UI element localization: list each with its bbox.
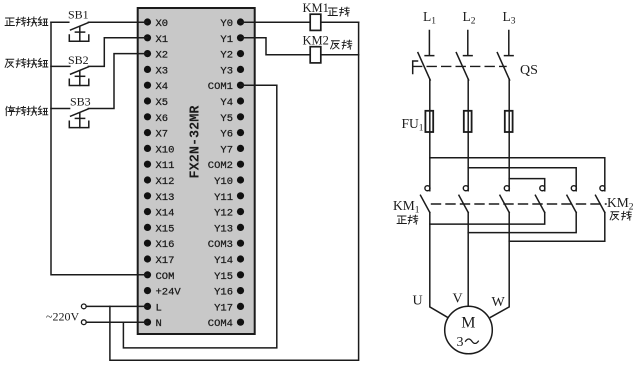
wire crossover L1 to KM2 pole3 bbox=[430, 158, 605, 191]
svg-text:X2: X2 bbox=[156, 50, 169, 62]
wire phase1 fuse to KM1 pole1 bbox=[429, 132, 431, 191]
svg-text:+24V: +24V bbox=[156, 287, 182, 299]
wire phase2 QS to fuse bbox=[467, 80, 469, 111]
wire SB2 to X1 bbox=[88, 38, 147, 67]
label 反转 (KM2 coil) bbox=[331, 40, 352, 49]
switch QS blade 2 bbox=[456, 53, 468, 80]
switch QS blade 1 bbox=[418, 53, 430, 80]
label 正转按钮 bbox=[5, 17, 48, 26]
svg-text:Y11: Y11 bbox=[214, 192, 233, 204]
terminal circle L bbox=[81, 304, 86, 309]
svg-text:QS: QS bbox=[520, 63, 538, 78]
wire crossover L2 to KM2 pole2 bbox=[468, 168, 576, 191]
wire KM1 pole1 to motor U bbox=[430, 213, 448, 318]
label W bbox=[492, 295, 506, 310]
svg-text:Y7: Y7 bbox=[220, 144, 233, 156]
label ~220V bbox=[46, 310, 79, 324]
label 停转按钮 bbox=[6, 106, 48, 116]
switch QS blade 3 bbox=[497, 53, 509, 80]
svg-text:KM2: KM2 bbox=[607, 195, 634, 213]
svg-text:Y0: Y0 bbox=[220, 18, 233, 30]
svg-text:X15: X15 bbox=[156, 223, 175, 235]
svg-text:L1: L1 bbox=[423, 9, 436, 27]
svg-text:Y4: Y4 bbox=[220, 97, 233, 109]
label SB3 bbox=[70, 95, 91, 109]
wire L2 stub bbox=[464, 31, 473, 56]
contactor linkage (dashed) bbox=[432, 203, 607, 205]
svg-text:V: V bbox=[453, 292, 463, 307]
svg-text:M: M bbox=[461, 315, 475, 332]
svg-text:KM2: KM2 bbox=[303, 34, 329, 48]
label V bbox=[453, 292, 463, 307]
svg-text:Y14: Y14 bbox=[214, 255, 233, 267]
svg-text:W: W bbox=[492, 295, 506, 310]
coil KM2 bbox=[310, 47, 321, 63]
wire common bus of buttons to COM bbox=[51, 22, 148, 275]
wire link U to KM2 pole1 bbox=[430, 213, 545, 225]
pushbutton SB3 (NO, stop) bbox=[51, 109, 89, 128]
svg-text:X13: X13 bbox=[156, 192, 175, 204]
contactor KM1 pole 1 bbox=[421, 186, 431, 213]
label 反转按钮 bbox=[5, 58, 48, 67]
wire L down to KM coil return bus bbox=[110, 22, 359, 360]
label KM2 bbox=[303, 34, 329, 48]
svg-text:Y3: Y3 bbox=[220, 65, 233, 77]
wire Y0 to KM1 coil bbox=[241, 21, 311, 23]
svg-text:COM: COM bbox=[156, 271, 175, 283]
PLC label FX2N-32MR bbox=[189, 105, 204, 179]
output terminal dots Y0-Y17,COM1-4 bbox=[237, 18, 244, 325]
svg-text:N: N bbox=[156, 318, 162, 330]
switch QS linkage (dashed) bbox=[413, 65, 506, 67]
wire Y1 to KM2 coil bbox=[241, 38, 311, 55]
wire SB3 to X2 bbox=[88, 54, 147, 109]
PLC module FX2N-32MR body bbox=[138, 8, 255, 334]
svg-text:L3: L3 bbox=[503, 9, 516, 27]
svg-text:U: U bbox=[413, 294, 423, 309]
svg-text:L: L bbox=[156, 302, 162, 314]
label L2 bbox=[463, 9, 476, 27]
contactor KM2 pole 2 bbox=[567, 186, 576, 213]
svg-text:Y10: Y10 bbox=[214, 176, 233, 188]
contactor KM1 pole 3 bbox=[500, 186, 510, 213]
contactor KM2 pole 1 bbox=[535, 186, 544, 213]
svg-text:Y1: Y1 bbox=[220, 34, 233, 46]
label 正转 (KM1 coil) bbox=[328, 7, 349, 16]
svg-text:X4: X4 bbox=[156, 81, 169, 93]
wire phase3 QS to fuse bbox=[508, 80, 510, 111]
label L1 bbox=[423, 9, 436, 27]
svg-text:~220V: ~220V bbox=[46, 310, 79, 324]
svg-text:Y13: Y13 bbox=[214, 223, 233, 235]
svg-text:KM1: KM1 bbox=[393, 198, 420, 216]
label KM1 (contacts) bbox=[393, 198, 420, 216]
wire link V to KM2 pole2 bbox=[468, 213, 576, 233]
wire L3 stub bbox=[505, 31, 514, 56]
label QS bbox=[520, 63, 538, 78]
svg-text:X7: X7 bbox=[156, 129, 169, 141]
svg-text:X5: X5 bbox=[156, 97, 169, 109]
wire crossover L3 to KM2 pole1 bbox=[509, 179, 545, 191]
label SB2 bbox=[68, 53, 89, 67]
svg-text:X11: X11 bbox=[156, 160, 175, 172]
svg-text:FU1: FU1 bbox=[402, 116, 424, 134]
input terminal dots X0-X17,COM,+24V,L,N bbox=[144, 18, 151, 325]
svg-text:Y6: Y6 bbox=[220, 129, 233, 141]
wire link W to KM2 pole3 bbox=[509, 213, 605, 242]
fuse FU1 phase1 bbox=[425, 111, 433, 132]
svg-text:X16: X16 bbox=[156, 239, 175, 251]
coil KM1 bbox=[310, 14, 321, 30]
svg-text:SB1: SB1 bbox=[68, 8, 89, 22]
svg-text:X6: X6 bbox=[156, 113, 169, 125]
wire phase1 QS to fuse bbox=[429, 80, 431, 111]
wire phase3 fuse to KM1 pole3 bbox=[508, 132, 510, 191]
svg-text:X0: X0 bbox=[156, 18, 169, 30]
wire L phase to PLC L bbox=[86, 305, 147, 307]
label KM2 (contacts) bbox=[607, 195, 634, 213]
svg-text:Y12: Y12 bbox=[214, 208, 233, 220]
svg-text:COM2: COM2 bbox=[208, 160, 233, 172]
input terminal labels bbox=[156, 18, 182, 330]
svg-text:Y17: Y17 bbox=[214, 302, 233, 314]
label 反转 (KM2 contacts) bbox=[610, 211, 631, 220]
svg-text:COM3: COM3 bbox=[208, 239, 233, 251]
switch QS handle bbox=[413, 61, 418, 74]
wire KM2 coil to bus bbox=[321, 54, 359, 56]
svg-text:X12: X12 bbox=[156, 176, 175, 188]
svg-text:X17: X17 bbox=[156, 255, 175, 267]
terminal circle N bbox=[81, 320, 86, 325]
fuse FU1 phase2 bbox=[464, 111, 472, 132]
svg-text:Y5: Y5 bbox=[220, 113, 233, 125]
svg-text:3: 3 bbox=[457, 335, 464, 350]
pushbutton SB1 (NO, start fwd) bbox=[51, 22, 89, 41]
svg-text:FX2N-32MR: FX2N-32MR bbox=[189, 105, 204, 179]
svg-text:Y16: Y16 bbox=[214, 287, 233, 299]
svg-text:X14: X14 bbox=[156, 208, 175, 220]
label KM1 bbox=[303, 1, 329, 15]
fuse FU1 phase3 bbox=[505, 111, 513, 132]
wire SB1 to X0 bbox=[88, 21, 147, 23]
wire N to PLC N bbox=[86, 321, 147, 323]
label FU1 bbox=[402, 116, 424, 134]
label SB1 bbox=[68, 8, 89, 22]
wire COM1 out bbox=[241, 84, 277, 86]
label L3 bbox=[503, 9, 516, 27]
svg-text:SB2: SB2 bbox=[68, 53, 89, 67]
svg-text:COM4: COM4 bbox=[208, 318, 233, 330]
contactor KM1 pole 2 bbox=[459, 186, 469, 213]
pushbutton SB2 (NO, start rev) bbox=[51, 66, 89, 85]
svg-text:KM1: KM1 bbox=[303, 1, 329, 15]
contactor KM2 pole 3 bbox=[596, 186, 606, 213]
motor M 3~ bbox=[445, 306, 493, 354]
wire L1 stub bbox=[425, 31, 434, 56]
wire KM1 pole2 to motor V bbox=[467, 213, 469, 307]
wire phase2 fuse to KM1 pole2 bbox=[467, 132, 469, 191]
svg-text:X1: X1 bbox=[156, 34, 169, 46]
svg-text:X10: X10 bbox=[156, 144, 175, 156]
output terminal labels bbox=[208, 18, 233, 330]
wire KM1 pole3 to motor W bbox=[491, 213, 510, 318]
wire N down to COM1 return bbox=[123, 85, 276, 348]
svg-text:Y2: Y2 bbox=[220, 50, 233, 62]
svg-text:SB3: SB3 bbox=[70, 95, 91, 109]
svg-text:X3: X3 bbox=[156, 65, 169, 77]
label U bbox=[413, 294, 423, 309]
svg-text:L2: L2 bbox=[463, 9, 476, 27]
svg-text:Y15: Y15 bbox=[214, 271, 233, 283]
wire KM1 coil to bus bbox=[321, 21, 359, 23]
label 正转 (KM1 contacts) bbox=[397, 215, 418, 224]
svg-text:COM1: COM1 bbox=[208, 81, 233, 93]
